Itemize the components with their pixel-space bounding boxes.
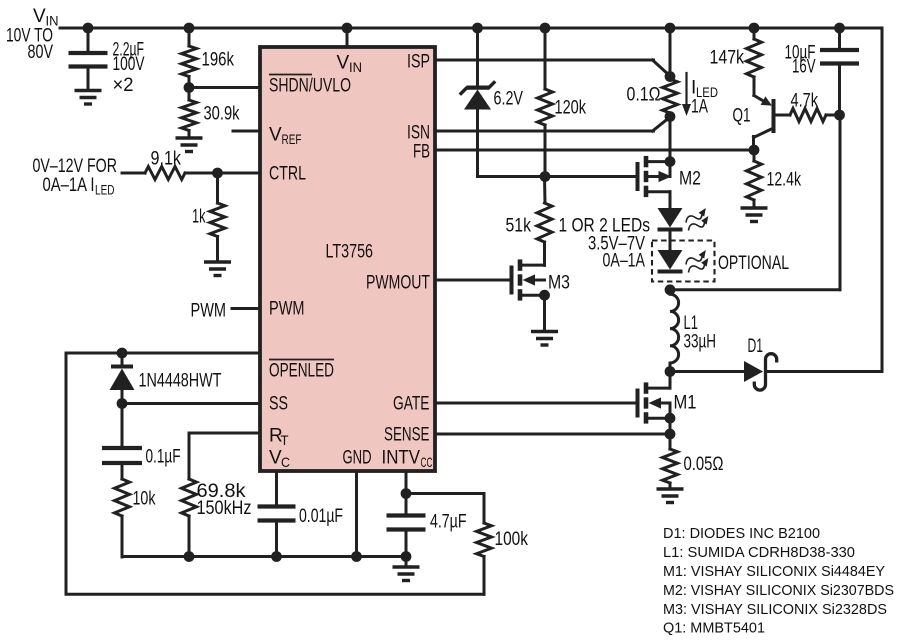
LED D-LED1 [658, 208, 709, 231]
svg-text:M1: VISHAY SILICONIX Si4484EY: M1: VISHAY SILICONIX Si4484EY [663, 563, 885, 580]
svg-text:Q1: Q1 [733, 106, 751, 127]
svg-text:16V: 16V [792, 57, 816, 78]
resistor 100k [406, 494, 528, 595]
zener cathode hooks [461, 83, 494, 94]
ground (0.05 ohm) [657, 489, 684, 503]
node zener top [472, 23, 483, 34]
transistor M3 NMOS [512, 259, 571, 300]
svg-text:0A–1A: 0A–1A [603, 251, 646, 272]
svg-text:100V: 100V [113, 54, 145, 75]
svg-text:147k: 147k [710, 48, 745, 69]
node SS junction [117, 398, 128, 409]
wire D1 cathode to VIN rail [766, 28, 882, 372]
svg-text:M2: VISHAY SILICONIX Si2307BDS: M2: VISHAY SILICONIX Si2307BDS [663, 582, 894, 599]
wire INTVCC pin [405, 471, 408, 494]
svg-text:OPENLED: OPENLED [269, 361, 334, 382]
svg-text:V: V [337, 53, 350, 74]
svg-text:D1: DIODES INC B2100: D1: DIODES INC B2100 [663, 525, 820, 542]
svg-text:ISP: ISP [407, 52, 430, 73]
svg-text:9.1k: 9.1k [151, 149, 182, 170]
capacitor 0.1uF [102, 404, 181, 468]
wire VREF stub [233, 130, 260, 133]
node parts list [663, 525, 894, 637]
svg-text:0.1Ω: 0.1Ω [627, 85, 661, 106]
svg-text:D1: D1 [748, 336, 764, 357]
node 120k / gate line junction [540, 171, 551, 182]
svg-text:0V–12V FOR: 0V–12V FOR [33, 156, 118, 177]
svg-text:GND: GND [343, 448, 372, 469]
capacitor C-IN 2.2uF 100V x2 [69, 28, 145, 96]
optional LED box [652, 241, 789, 282]
resistor 147k [710, 28, 762, 96]
node 10uF top [834, 23, 845, 34]
capacitor 0.01uF [258, 506, 344, 557]
wire M2 drain to LED [669, 192, 672, 208]
node FB / Q1 collector junction [749, 145, 760, 156]
svg-text:10k: 10k [133, 489, 156, 510]
resistor 0.05 ohm [663, 434, 724, 489]
node 120k top [540, 23, 551, 34]
svg-text:150kHz: 150kHz [197, 498, 252, 519]
ground (1k) [204, 262, 231, 276]
wire FB [435, 149, 754, 152]
resistor 51k [506, 177, 553, 266]
node VIN input label [6, 6, 59, 63]
svg-text:INTV: INTV [382, 448, 421, 469]
wire GND pin [355, 471, 358, 557]
resistor 10k [115, 465, 156, 557]
svg-text:1N4448HWT: 1N4448HWT [139, 371, 222, 392]
svg-text:SHDN/UVLO: SHDN/UVLO [269, 76, 351, 97]
wire SENSE [435, 433, 670, 436]
svg-text:GATE: GATE [393, 393, 430, 414]
wire CTRL to IC [218, 172, 261, 175]
capacitor 10uF 16V [785, 28, 860, 115]
svg-text:196k: 196k [202, 50, 235, 71]
resistor 12.4k [747, 150, 802, 208]
node 147k top [749, 23, 760, 34]
svg-text:CTRL: CTRL [269, 164, 306, 185]
svg-text:120k: 120k [555, 98, 587, 119]
svg-text:SENSE: SENSE [384, 425, 430, 446]
svg-text:C: C [281, 454, 290, 470]
resistor 196k [182, 28, 235, 88]
node CTRL [212, 168, 223, 179]
svg-text:4.7k: 4.7k [791, 91, 819, 112]
svg-text:ISN: ISN [407, 123, 430, 144]
transistor Q1 PNP [733, 96, 791, 151]
wire OPENLED [66, 352, 260, 355]
svg-text:0.05Ω: 0.05Ω [684, 454, 724, 475]
svg-text:M3: VISHAY SILICONIX Si2328DS: M3: VISHAY SILICONIX Si2328DS [663, 601, 887, 618]
svg-text:0A–1A I: 0A–1A I [43, 175, 95, 196]
wire INTVCC dot to ground [405, 557, 408, 567]
wire bottom VC/GND rail [122, 551, 406, 562]
svg-text:12.4k: 12.4k [767, 170, 802, 191]
resistor 120k [538, 28, 587, 177]
svg-text:0.01µF: 0.01µF [299, 506, 343, 527]
resistor 1k [192, 173, 225, 262]
svg-text:80V: 80V [28, 42, 54, 63]
wire ISN [435, 117, 670, 131]
svg-text:REF: REF [282, 131, 302, 147]
node divider top [184, 23, 195, 34]
node sense-R top [665, 23, 676, 34]
svg-text:51k: 51k [506, 216, 532, 237]
op-amp U1 LT3756 controller IC [260, 47, 435, 471]
transistor M1 NMOS [638, 372, 697, 435]
ground (12.4k) [741, 208, 768, 222]
svg-text:100k: 100k [495, 529, 529, 550]
svg-text:OPTIONAL: OPTIONAL [718, 253, 789, 274]
wire VC pin [275, 471, 278, 504]
node switch [665, 366, 676, 377]
svg-text:×2: ×2 [113, 75, 134, 96]
wire PWM stub [232, 307, 260, 310]
wire OPENLED pull-up loop [66, 353, 484, 594]
resistor 0.1 ohm sense [627, 28, 678, 122]
wire SHDN/UVLO [189, 86, 260, 89]
node SENSE junction [665, 429, 676, 440]
ground (INTVCC cap) [393, 567, 420, 581]
node OPENLED junction [117, 348, 128, 359]
node base/flying-cap junction [834, 110, 845, 121]
svg-text:LED: LED [95, 182, 115, 198]
wire RT [189, 433, 260, 479]
node INTVCC ground junction [401, 551, 412, 562]
wire M3 source to ground [543, 295, 546, 331]
wire top VIN rail [60, 27, 882, 30]
transistor M2 PMOS [638, 117, 702, 198]
node PWM input label [191, 301, 227, 322]
LED D-LED2 optional [658, 250, 709, 273]
svg-text:FB: FB [413, 142, 430, 163]
svg-text:M2: M2 [679, 169, 701, 190]
svg-text:Q1: MMBT5401: Q1: MMBT5401 [663, 620, 765, 637]
node CTRL input label [33, 156, 118, 198]
node ILED arrow label [682, 73, 718, 118]
svg-text:SS: SS [269, 394, 288, 415]
wire ISP [435, 60, 670, 76]
wire LED bottom to flying-cap node [670, 115, 840, 290]
wire M2 gate line [478, 175, 638, 178]
svg-text:M1: M1 [674, 393, 697, 414]
node LED bottom [665, 284, 676, 295]
svg-text:4.7µF: 4.7µF [430, 512, 467, 533]
svg-text:1A: 1A [691, 97, 708, 118]
resistor 9.1k [122, 149, 218, 180]
svg-text:M3: M3 [548, 272, 570, 293]
wire GATE [435, 402, 638, 405]
svg-text:0.1µF: 0.1µF [146, 447, 181, 468]
capacitor 4.7uF [387, 494, 467, 558]
svg-text:PWMOUT: PWMOUT [366, 272, 430, 293]
wire PWMOUT [435, 279, 512, 282]
svg-text:V: V [269, 125, 282, 146]
svg-text:T: T [281, 432, 289, 448]
resistor 69.8k 150kHz [182, 479, 252, 557]
node LED string annotation [559, 216, 651, 272]
zener diode 6.2V [464, 28, 523, 177]
ground (input cap) [75, 91, 102, 105]
svg-text:CC: CC [421, 454, 433, 470]
svg-text:V: V [33, 6, 46, 27]
diode 1N4448HWT [110, 353, 222, 404]
svg-text:IN: IN [349, 59, 362, 75]
node input-cap junction [83, 23, 94, 34]
resistor 4.7k [790, 91, 840, 122]
svg-text:PWM: PWM [191, 301, 227, 322]
resistor 30.9k [182, 88, 240, 138]
svg-text:30.9k: 30.9k [204, 104, 240, 125]
wire LED1-LED2 [669, 232, 672, 251]
node UVLO tap [184, 82, 195, 93]
svg-text:33µH: 33µH [684, 331, 717, 352]
svg-text:6.2V: 6.2V [494, 89, 524, 110]
inductor L1 33uH [670, 290, 716, 372]
node M3 source [539, 290, 550, 301]
svg-text:PWM: PWM [269, 299, 305, 320]
wire switch node to D1 [670, 370, 744, 373]
diode D1 schottky [744, 336, 777, 390]
wire VIN pin [342, 23, 353, 47]
svg-text:1k: 1k [192, 207, 206, 228]
node INTVCC junction [401, 488, 412, 499]
svg-text:LT3756: LT3756 [326, 242, 374, 263]
wire SS [122, 402, 260, 405]
svg-text:L1: SUMIDA CDRH8D38-330: L1: SUMIDA CDRH8D38-330 [663, 544, 855, 561]
ground (M3) [531, 332, 558, 346]
ground (30.9k) [176, 138, 203, 152]
